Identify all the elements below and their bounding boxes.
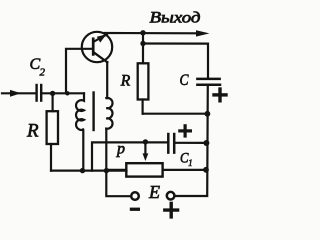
emitter-to-secondary vertical — [106, 62, 108, 98]
output arrowhead — [196, 30, 210, 36]
transformer core — [92, 93, 94, 131]
wire C2 to primary top (base node) — [41, 92, 84, 94]
capacitor C2 left plate — [35, 85, 37, 101]
wire to capacitor C top — [143, 44, 208, 79]
wire base vertical and base line — [66, 49, 93, 94]
svg-text:R: R — [26, 120, 39, 141]
capacitor C top plate — [197, 78, 219, 81]
battery minus terminal circle — [131, 192, 139, 200]
transistor base bar — [92, 39, 95, 55]
node: C branch — [140, 41, 145, 46]
node: primary bottom on rail — [80, 168, 85, 173]
capacitor C bottom plate — [197, 83, 220, 86]
resistor R (right) bottom lead — [142, 100, 144, 114]
plus sign for C — [214, 89, 226, 101]
minus sign — [130, 208, 140, 211]
node: secondary bus on rail — [104, 168, 109, 173]
transformer secondary winding — [106, 98, 112, 129]
collector rail to output — [105, 32, 198, 34]
capacitor C1 right plate — [173, 134, 176, 153]
svg-text:1: 1 — [188, 159, 193, 169]
node: rail meets bus — [205, 111, 211, 117]
resistor R (left) body — [47, 111, 58, 144]
resistor R (left) bottom lead — [50, 144, 52, 171]
svg-text:R: R — [120, 73, 131, 90]
battery plus terminal circle — [167, 192, 175, 200]
node: R top junction — [50, 91, 55, 96]
transistor circle — [82, 32, 112, 62]
plus sign for C1 — [180, 126, 191, 136]
capacitor C2 right plate — [40, 85, 42, 101]
transformer primary winding — [76, 93, 84, 170]
node: collector rail / R right — [140, 30, 145, 35]
svg-text:p: p — [116, 141, 125, 158]
svg-text:C: C — [180, 72, 189, 89]
feedback wire with corner down — [92, 142, 167, 170]
plus sign battery — [165, 203, 178, 217]
wiper arrow line — [144, 142, 146, 154]
bottom-left rail — [51, 170, 127, 172]
wiper arrowhead — [143, 153, 149, 161]
rail from R right to bus — [143, 113, 208, 115]
svg-text:E: E — [148, 182, 160, 202]
svg-text:2: 2 — [40, 67, 46, 79]
potentiometer body — [126, 163, 162, 176]
right bus vertical — [175, 85, 208, 196]
input arrowhead — [10, 90, 21, 97]
node: wiper branch — [143, 139, 148, 144]
node: base branch junction — [65, 91, 69, 95]
wire C1 to bus — [174, 142, 205, 144]
resistor R (left) top lead — [51, 93, 53, 111]
svg-text:Выход: Выход — [150, 10, 201, 27]
input wire — [2, 92, 35, 94]
node: C1 wire meets bus — [203, 140, 209, 146]
pot right wire — [163, 169, 206, 171]
resistor R (right) body — [138, 63, 149, 99]
secondary bottom bus to battery minus — [106, 129, 131, 197]
node: pot right meets bus — [203, 167, 209, 173]
capacitor C1 left plate — [167, 134, 170, 153]
resistor R (right) top lead — [142, 33, 144, 63]
pot left wire — [106, 169, 126, 171]
transistor upper lead (emitter with arrow) — [94, 34, 107, 41]
transistor lower lead (collector diag) — [94, 52, 108, 62]
